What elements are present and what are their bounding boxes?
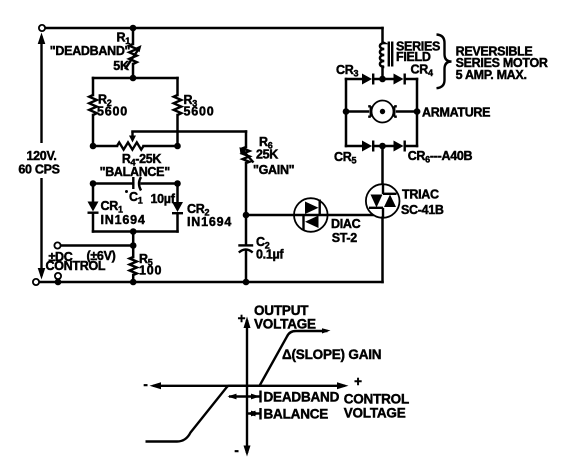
- svg-text:IN1694: IN1694: [187, 215, 232, 229]
- node junction field bottom: [379, 76, 386, 83]
- svg-text:"DEADBAND": "DEADBAND": [50, 44, 131, 58]
- svg-text:25K: 25K: [256, 148, 278, 162]
- label SERIES FIELD: [396, 39, 440, 64]
- diode CR6: [394, 141, 405, 152]
- node junction gate wire: [243, 212, 250, 219]
- wire center drop: [132, 232, 135, 258]
- svg-text:5K: 5K: [113, 59, 129, 73]
- svg-text:+: +: [238, 311, 246, 326]
- motor armature: [346, 101, 419, 123]
- resistor R2 5600: [89, 78, 97, 146]
- diode CR4: [394, 74, 405, 85]
- label CONTROL VOLTAGE: [344, 392, 409, 421]
- node junction DC bottom: [55, 279, 62, 286]
- svg-text:5 AMP. MAX.: 5 AMP. MAX.: [456, 68, 527, 82]
- svg-text:DIAC: DIAC: [331, 217, 361, 231]
- svg-text:ARMATURE: ARMATURE: [422, 106, 490, 120]
- graph horizontal axis: [150, 382, 349, 389]
- resistor R1 "DEADBAND" 5K: [125, 28, 142, 78]
- wire bridge left rail: [345, 79, 348, 146]
- wire DC control line: [61, 244, 134, 247]
- wire bottom rail: [39, 281, 383, 284]
- svg-text:CONTROL: CONTROL: [344, 392, 409, 407]
- node junction C1 right: [174, 180, 181, 187]
- node DC terminal upper: [54, 242, 60, 248]
- 120V source arrow: [38, 33, 46, 280]
- dimension deadband: [228, 391, 261, 403]
- label DC CONTROL: [46, 250, 106, 273]
- wire bridge bottom rail: [346, 145, 417, 148]
- svg-text:5600: 5600: [184, 105, 215, 119]
- wire top rail: [45, 27, 383, 30]
- graph transfer curve: [146, 331, 328, 442]
- node junction C2 bottom: [243, 279, 250, 286]
- svg-text:0.1µf: 0.1µf: [256, 248, 284, 262]
- inductor series field: [380, 42, 392, 80]
- wire DC stub: [57, 279, 59, 282]
- diode CR1 IN1694: [88, 184, 99, 232]
- svg-text:(±6V): (±6V): [87, 249, 116, 263]
- wire top rail corner drop: [381, 28, 384, 43]
- wire bridge top rail: [346, 78, 417, 81]
- svg-text:5600: 5600: [97, 104, 128, 118]
- svg-text:100: 100: [139, 264, 162, 278]
- svg-text:"GAIN": "GAIN": [253, 163, 295, 177]
- svg-text:TRIAC: TRIAC: [402, 188, 439, 202]
- svg-text:+: +: [354, 374, 362, 389]
- node junction DC line: [130, 242, 137, 249]
- node junction R1 top: [130, 25, 137, 32]
- svg-text:-: -: [234, 443, 238, 458]
- potentiometer R4-25K BALANCE: [93, 132, 178, 150]
- diac ST-2: [294, 198, 328, 232]
- node junction box bottom: [130, 228, 137, 235]
- diode CR2 IN1694: [172, 184, 183, 232]
- svg-text:10µf: 10µf: [151, 192, 176, 206]
- diode CR5: [362, 141, 373, 152]
- node junction R5 bottom: [130, 279, 137, 286]
- wire R4 wiper to R6: [133, 130, 247, 133]
- wire bridge to triac: [381, 146, 384, 185]
- node junction C1 left: [90, 180, 97, 187]
- node top-left terminal: [39, 25, 45, 31]
- rheostat R6 25K GAIN: [240, 132, 254, 216]
- svg-text:BALANCE: BALANCE: [264, 407, 329, 422]
- wire diode box bottom: [93, 230, 178, 233]
- wire R2R3 box top: [93, 77, 178, 80]
- node DC terminal lower: [55, 273, 61, 279]
- capacitor C1 10uf: [93, 177, 178, 193]
- svg-text:60 CPS: 60 CPS: [18, 163, 59, 177]
- svg-text:VOLTAGE: VOLTAGE: [344, 406, 406, 421]
- node junction balance left: [90, 143, 97, 150]
- svg-text:CR6---A40B: CR6---A40B: [408, 149, 473, 165]
- resistor R5 100: [130, 257, 137, 282]
- wire triac to bottom rail: [381, 218, 384, 282]
- svg-text:-: -: [143, 377, 147, 392]
- diode CR3: [362, 74, 373, 85]
- wire to diac: [246, 214, 293, 217]
- graph vertical axis: [244, 317, 251, 457]
- node junction armature left: [343, 108, 350, 115]
- label OUTPUT VOLTAGE: [254, 303, 316, 332]
- svg-text:Δ(SLOPE) GAIN: Δ(SLOPE) GAIN: [282, 347, 381, 362]
- node junction balance right: [174, 143, 181, 150]
- capacitor C2 0.1uf: [238, 215, 253, 282]
- svg-text:VOLTAGE: VOLTAGE: [254, 317, 316, 332]
- svg-text:ST-2: ST-2: [332, 231, 358, 245]
- wire bridge right rail: [416, 79, 419, 146]
- label REVERSIBLE SERIES MOTOR 5 AMP MAX: [456, 44, 548, 82]
- node junction R1 bottom: [130, 75, 137, 82]
- svg-text:DEADBAND: DEADBAND: [264, 390, 340, 405]
- node bottom-left terminal: [33, 279, 39, 285]
- resistor R3 5600: [174, 78, 182, 146]
- brace motor: [437, 35, 452, 89]
- dimension balance: [247, 408, 261, 420]
- svg-text:SC-41B: SC-41B: [401, 203, 444, 217]
- node junction bridge bottom center: [379, 143, 386, 150]
- svg-text:"BALANCE": "BALANCE": [100, 165, 171, 179]
- triac SC-41B: [366, 184, 400, 218]
- svg-text:IN1694: IN1694: [101, 213, 146, 227]
- node junction armature right: [414, 108, 421, 115]
- label 120V 60 CPS: [18, 149, 59, 177]
- graph curve end arrow: [322, 328, 331, 333]
- svg-text:120V.: 120V.: [26, 149, 56, 163]
- wire diac to triac gate: [328, 214, 374, 217]
